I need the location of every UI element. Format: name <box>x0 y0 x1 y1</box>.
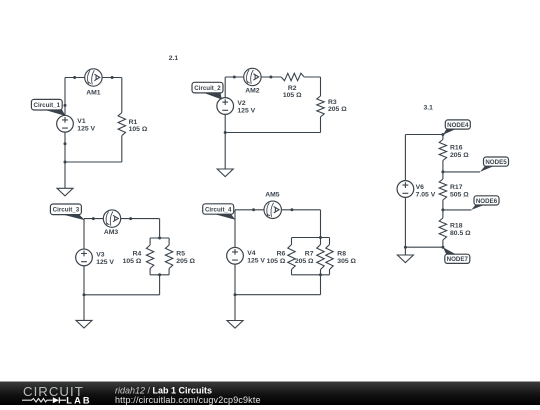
node label Circuit_4 <box>203 204 236 220</box>
wire c5 ground lead <box>404 247 406 255</box>
node label NODE5 <box>480 157 509 172</box>
svg-text:R8: R8 <box>337 251 346 258</box>
junction c2 a <box>233 76 236 79</box>
wire c4 left <box>234 210 236 295</box>
footer bar <box>0 382 540 406</box>
junction c3 a <box>92 217 95 220</box>
junction c4 b <box>290 208 293 211</box>
wire c5 chain 4 <box>442 240 444 247</box>
svg-text:NODE7: NODE7 <box>447 256 469 263</box>
svg-text:LAB: LAB <box>66 395 91 405</box>
node label Circuit_2 <box>192 82 223 99</box>
ground c3 <box>76 320 92 328</box>
voltage source V4 <box>227 247 266 264</box>
junction c4 c <box>319 236 322 239</box>
resistor R1 <box>118 113 148 136</box>
node label NODE4 <box>443 120 470 135</box>
node label NODE7 <box>443 247 470 263</box>
wire c4 stem lower <box>320 275 322 295</box>
wire c3 bottom <box>84 294 160 296</box>
wire c4 par r6 upper <box>291 238 293 245</box>
junction c1 a <box>73 76 76 79</box>
svg-text:NODE6: NODE6 <box>476 198 498 205</box>
resistor R2 <box>281 73 304 99</box>
svg-text:R5: R5 <box>176 251 185 258</box>
wire c3 left <box>83 219 85 295</box>
junction c3 d <box>158 273 161 276</box>
resistor R7 <box>295 245 324 270</box>
junction c3 c <box>158 237 161 240</box>
voltage source V3 <box>76 249 115 266</box>
ground c1 <box>57 188 73 196</box>
wire c4 stem upper <box>320 210 322 238</box>
junction c5 b <box>441 208 444 211</box>
wire c3 par bottom bar <box>150 274 169 276</box>
wire c3 par right upper <box>168 238 170 245</box>
wire c5 chain 3 <box>442 200 444 218</box>
svg-text:Circuit_4: Circuit_4 <box>205 206 232 213</box>
svg-text:R6: R6 <box>277 251 286 258</box>
wire c4 par r7 upper <box>320 238 322 245</box>
wire c4 par top bar <box>292 237 330 239</box>
svg-text:125 V: 125 V <box>96 259 114 266</box>
svg-text:V6: V6 <box>416 184 425 191</box>
svg-text:105 Ω: 105 Ω <box>267 258 286 265</box>
wire c2 ground lead <box>224 133 226 170</box>
svg-text:Circuit_3: Circuit_3 <box>53 207 80 214</box>
wire c2 left <box>224 77 226 133</box>
svg-text:V1: V1 <box>77 118 86 125</box>
ammeter AM3 <box>103 210 120 236</box>
svg-text:Circuit_1: Circuit_1 <box>34 102 61 109</box>
svg-text:R2: R2 <box>288 85 297 92</box>
wire c2 right lower <box>320 117 322 133</box>
svg-text:205 Ω: 205 Ω <box>295 258 314 265</box>
svg-text:R1: R1 <box>129 119 138 126</box>
svg-text:AM5: AM5 <box>265 191 280 198</box>
svg-text:505 Ω: 505 Ω <box>450 192 469 199</box>
node label Circuit_1 <box>31 99 65 116</box>
wire c1 left <box>64 78 66 163</box>
ammeter AM5 <box>264 191 281 218</box>
resistor R4 <box>123 245 154 269</box>
ammeter AM1 <box>85 69 102 97</box>
svg-text:R4: R4 <box>133 251 142 258</box>
wire c5 top <box>405 134 443 136</box>
wire c1 right upper <box>121 78 123 113</box>
svg-text:7.05 V: 7.05 V <box>416 192 436 199</box>
wire c3 par right lower <box>168 269 170 275</box>
svg-text:R3: R3 <box>328 99 337 106</box>
wire c3 stem lower <box>159 275 161 295</box>
junction c1 b <box>111 76 114 79</box>
wire c3 ground lead <box>83 295 85 321</box>
junction c5 a <box>441 170 444 173</box>
svg-text:105 Ω: 105 Ω <box>283 92 302 99</box>
svg-text:2.1: 2.1 <box>169 55 179 62</box>
wire c3 top <box>84 218 160 220</box>
svg-text:V4: V4 <box>247 250 256 257</box>
svg-text:305 Ω: 305 Ω <box>337 258 356 265</box>
wire c2 bottom <box>225 132 320 134</box>
svg-text:105 Ω: 105 Ω <box>129 126 148 133</box>
svg-text:R16: R16 <box>450 144 463 151</box>
junction c1 d <box>64 142 67 145</box>
svg-text:http://circuitlab.com/cugv2cp9: http://circuitlab.com/cugv2cp9c9kte <box>115 395 261 405</box>
ammeter AM2 <box>244 68 261 94</box>
wire c5 node6 stub <box>443 209 472 211</box>
wire c3 par top bar <box>150 237 169 239</box>
junction c1 c <box>64 104 67 107</box>
voltage source V2 <box>217 98 256 115</box>
ground c2 <box>217 169 233 177</box>
resistor R5 <box>165 245 195 269</box>
wire c4 par bottom bar <box>292 274 330 276</box>
junction c1 e <box>64 161 67 164</box>
resistor R17 <box>439 179 469 200</box>
svg-text:80.5 Ω: 80.5 Ω <box>450 230 471 237</box>
svg-text:205 Ω: 205 Ω <box>328 106 347 113</box>
junction c5 c <box>404 246 407 249</box>
resistor R8 <box>326 245 357 270</box>
svg-text:125 V: 125 V <box>237 108 255 115</box>
wire c5 node5 stub <box>443 171 480 173</box>
svg-text:AM2: AM2 <box>245 88 260 95</box>
wire c5 chain 2 <box>442 161 444 180</box>
voltage source V1 <box>57 115 96 132</box>
wire c5 chain 1 <box>442 135 444 140</box>
wire c4 top <box>235 209 321 211</box>
wire c4 par r7 lower <box>320 270 322 275</box>
resistor R18 <box>439 218 471 240</box>
ground c5 <box>397 255 413 263</box>
ground c4 <box>227 321 243 329</box>
junction c4 e <box>234 293 237 296</box>
svg-text:AM1: AM1 <box>86 89 101 96</box>
node label Circuit_3 <box>50 204 85 220</box>
wire c1 top <box>65 77 122 79</box>
node label NODE6 <box>471 196 499 210</box>
svg-text:3.1: 3.1 <box>424 105 434 112</box>
junction c5 d <box>441 133 444 136</box>
svg-text:205 Ω: 205 Ω <box>450 152 469 159</box>
junction c4 d <box>319 273 322 276</box>
wire c4 par r6 lower <box>291 270 293 275</box>
junction c2 c <box>224 131 227 134</box>
svg-text:105 Ω: 105 Ω <box>123 258 142 265</box>
svg-text:125 V: 125 V <box>77 125 95 132</box>
resistor R6 <box>267 245 296 270</box>
wire c5 bottom <box>405 246 443 248</box>
wire c4 ground lead <box>234 295 236 321</box>
CircuitLab logo wordmark <box>23 384 92 405</box>
svg-text:Circuit_2: Circuit_2 <box>194 85 221 92</box>
svg-text:V3: V3 <box>96 251 105 258</box>
wire c1 bottom <box>65 161 122 163</box>
logo resistor-diode squiggle <box>22 397 66 403</box>
wire c3 par left upper <box>149 238 151 245</box>
wire c4 bottom <box>235 294 321 296</box>
wire c4 par r8 upper <box>329 238 331 245</box>
wire c2 right upper <box>320 77 322 96</box>
wire c3 par left lower <box>149 269 151 275</box>
voltage source V6 <box>397 181 436 199</box>
wire c3 stem upper <box>159 219 161 238</box>
svg-text:R7: R7 <box>305 251 314 258</box>
svg-text:R18: R18 <box>450 223 463 230</box>
svg-text:R17: R17 <box>450 184 463 191</box>
svg-text:205 Ω: 205 Ω <box>176 258 195 265</box>
wire c1 ground lead <box>64 162 66 188</box>
wire c1 right lower <box>121 136 123 162</box>
wire c4 par r8 lower <box>329 270 331 275</box>
svg-text:NODE5: NODE5 <box>485 159 507 166</box>
junction c4 a <box>252 208 255 211</box>
resistor R16 <box>439 140 469 161</box>
junction c3 b <box>129 217 132 220</box>
svg-text:AM3: AM3 <box>104 229 119 236</box>
junction c3 e <box>83 293 86 296</box>
junction c5 e <box>441 246 444 249</box>
wire c5 left <box>404 135 406 248</box>
svg-text:NODE4: NODE4 <box>447 122 469 129</box>
junction c2 b <box>269 76 272 79</box>
wire c2 top left <box>225 76 281 78</box>
resistor R3 <box>317 96 347 117</box>
wire c2 top right <box>304 76 320 78</box>
svg-text:V2: V2 <box>237 100 246 107</box>
svg-text:125 V: 125 V <box>247 257 265 264</box>
